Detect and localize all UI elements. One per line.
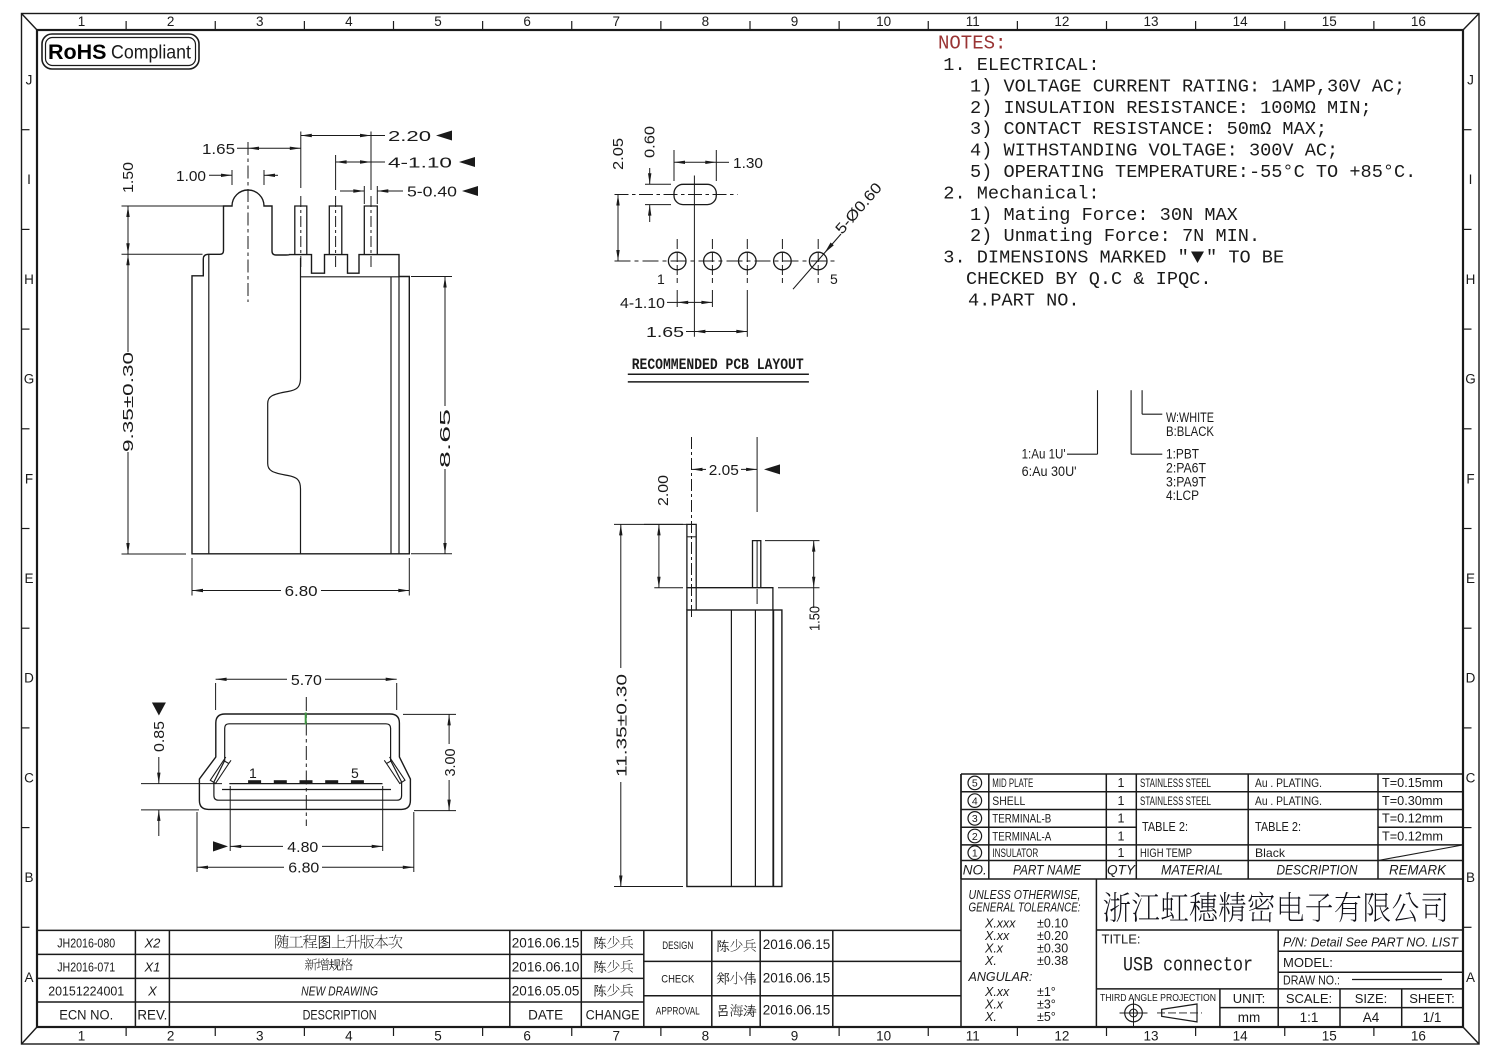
dim 1.65 (slot to hole3) xyxy=(694,331,747,333)
svg-text:J: J xyxy=(26,72,33,87)
svg-text:1:1: 1:1 xyxy=(1300,1010,1319,1025)
pcb layout: hole 5 (5-O0.60) xyxy=(809,252,827,270)
svg-text:X: X xyxy=(147,984,158,999)
side view: front pin centerline xyxy=(691,437,693,620)
svg-text:" TO BE: " TO BE xyxy=(1206,248,1284,269)
svg-text:3: 3 xyxy=(256,1029,264,1044)
svg-text:4: 4 xyxy=(345,1029,353,1044)
svg-text:GENERAL TOLERANCE:: GENERAL TOLERANCE: xyxy=(969,901,1081,915)
svg-text:NO.: NO. xyxy=(963,863,987,878)
svg-text:7: 7 xyxy=(613,1029,621,1044)
dim 1.50 (rear pin protrusion) xyxy=(765,540,820,542)
svg-text:1: 1 xyxy=(1118,846,1125,860)
pcb layout: hole 2 (5-O0.60) xyxy=(704,252,722,270)
leader 5-O0.60 xyxy=(793,234,841,289)
svg-text:mm: mm xyxy=(1238,1010,1261,1025)
svg-text:11: 11 xyxy=(966,1029,980,1044)
svg-text:2) Unmating Force: 7N MIN.: 2) Unmating Force: 7N MIN. xyxy=(970,226,1260,247)
side view: internal vertical lines xyxy=(730,610,732,887)
svg-text:I: I xyxy=(1469,172,1473,187)
mating view: green datum tick xyxy=(305,713,307,725)
svg-text:UNIT:: UNIT: xyxy=(1233,991,1266,1006)
svg-text:DRAW NO.:: DRAW NO.: xyxy=(1283,973,1340,988)
front view: tab centerline xyxy=(247,142,249,302)
svg-text:1.65: 1.65 xyxy=(202,141,235,158)
svg-text:1: 1 xyxy=(78,14,86,29)
svg-text:H: H xyxy=(24,272,34,287)
svg-text:1: 1 xyxy=(249,765,257,781)
svg-text:2:PA6T: 2:PA6T xyxy=(1166,460,1206,475)
svg-text:X1: X1 xyxy=(143,960,160,975)
BOM diagonal in remark cell xyxy=(1378,845,1463,861)
svg-text:1.50: 1.50 xyxy=(807,606,824,631)
side view: top cap xyxy=(687,588,773,610)
svg-text:A: A xyxy=(1466,970,1475,985)
svg-text:14: 14 xyxy=(1233,1029,1249,1044)
svg-text:STAINLESS STEEL: STAINLESS STEEL xyxy=(1140,776,1211,790)
svg-text:8: 8 xyxy=(702,14,710,29)
svg-text:±5°: ±5° xyxy=(1037,1010,1056,1024)
svg-text:Au . PLATING.: Au . PLATING. xyxy=(1255,794,1322,808)
revision description row 1 (Chinese) xyxy=(275,935,402,949)
svg-text:2.00: 2.00 xyxy=(655,475,672,506)
svg-text:P/N: Detail See PART NO. LIST: P/N: Detail See PART NO. LIST xyxy=(1283,935,1459,950)
front view: terminal pin 3 xyxy=(364,206,377,255)
svg-text:SHELL: SHELL xyxy=(992,794,1025,808)
mating view: 5 contacts xyxy=(248,780,261,783)
svg-text:2016.06.15: 2016.06.15 xyxy=(512,936,580,951)
svg-text:Compliant: Compliant xyxy=(111,42,192,64)
pcb layout: slot horizontal centerline xyxy=(615,194,738,196)
svg-text:5-0.40: 5-0.40 xyxy=(407,184,457,201)
svg-text:DESCRIPTION: DESCRIPTION xyxy=(1277,863,1358,878)
svg-text:5: 5 xyxy=(830,271,838,287)
svg-text:3: 3 xyxy=(256,14,264,29)
svg-text:1.50: 1.50 xyxy=(120,162,137,193)
dim 5.70 (shell top width) xyxy=(215,683,217,710)
svg-text:J: J xyxy=(1467,72,1474,87)
pcb layout: hole 1 (5-O0.60) xyxy=(668,252,686,270)
BOM row 5 MID PLATE xyxy=(968,776,982,790)
BOM row 3 TERMINAL-B xyxy=(968,812,982,826)
svg-text:8.65: 8.65 xyxy=(437,409,454,468)
svg-text:2: 2 xyxy=(167,14,175,29)
svg-text:SHEET:: SHEET: xyxy=(1409,991,1455,1006)
svg-text:2016.06.15: 2016.06.15 xyxy=(763,937,831,952)
svg-text:PART NAME: PART NAME xyxy=(1013,863,1082,878)
svg-text:1: 1 xyxy=(78,1029,86,1044)
side view: body xyxy=(687,610,782,887)
svg-text:5) OPERATING TEMPERATURE:-55°C: 5) OPERATING TEMPERATURE:-55°C TO +85°C. xyxy=(970,162,1416,183)
svg-text:5.70: 5.70 xyxy=(291,672,322,689)
mating view: shell inner outline xyxy=(214,724,402,800)
svg-text:3: 3 xyxy=(972,813,978,825)
svg-text:MATERIAL: MATERIAL xyxy=(1161,863,1223,878)
dim 6.80 (shell bottom width) xyxy=(196,812,198,872)
svg-text:X2: X2 xyxy=(143,936,161,951)
svg-text:STAINLESS STEEL: STAINLESS STEEL xyxy=(1140,794,1211,808)
svg-text:T=0.12mm: T=0.12mm xyxy=(1382,812,1443,826)
dim 0.85 (contact plane to bottom) xyxy=(152,703,166,716)
svg-text:X.: X. xyxy=(984,954,997,968)
svg-text:1: 1 xyxy=(1118,812,1125,826)
notes checked-mark triangle xyxy=(1191,252,1204,264)
svg-text:W:WHITE: W:WHITE xyxy=(1166,410,1214,425)
pcb layout: holes centerline xyxy=(615,260,839,262)
svg-text:TITLE:: TITLE: xyxy=(1102,932,1141,947)
svg-text:8: 8 xyxy=(702,1029,710,1044)
svg-text:1) Mating Force: 30N MAX: 1) Mating Force: 30N MAX xyxy=(970,205,1238,226)
svg-text:±0.38: ±0.38 xyxy=(1037,954,1068,968)
dim 1.00 (dome width) xyxy=(231,170,233,185)
svg-text:G: G xyxy=(1465,372,1476,387)
svg-text:B: B xyxy=(24,870,33,885)
dim 4-1.10 (pin pitch) xyxy=(335,155,337,190)
svg-text:C: C xyxy=(1466,770,1476,785)
side view: rear pin xyxy=(753,541,761,588)
svg-text:11: 11 xyxy=(966,14,980,29)
svg-text:20151224001: 20151224001 xyxy=(48,984,124,999)
company name (Chinese) xyxy=(1104,892,1447,923)
svg-text:TABLE 2:: TABLE 2: xyxy=(1255,820,1301,834)
svg-text:10: 10 xyxy=(876,1029,891,1044)
svg-text:4-1.10: 4-1.10 xyxy=(388,155,452,172)
dim 4-1.10 (hole pitch) xyxy=(677,301,712,303)
svg-text:3:PA9T: 3:PA9T xyxy=(1166,474,1206,489)
svg-text:2. Mechanical:: 2. Mechanical: xyxy=(943,183,1099,204)
svg-text:6.80: 6.80 xyxy=(288,860,319,877)
dim 2.20 (pin1 to pin3) xyxy=(300,132,302,189)
svg-text:2: 2 xyxy=(167,1029,175,1044)
svg-text:T=0.30mm: T=0.30mm xyxy=(1382,794,1443,808)
revision description row 2 (Chinese) xyxy=(305,958,353,970)
svg-text:14: 14 xyxy=(1233,14,1249,29)
part no. legend lines xyxy=(1097,390,1099,454)
pcb layout: hole 4 (5-O0.60) xyxy=(774,252,792,270)
svg-text:15: 15 xyxy=(1322,14,1337,29)
tolerance box xyxy=(960,879,962,1027)
svg-text:1) VOLTAGE CURRENT RATING: 1AM: 1) VOLTAGE CURRENT RATING: 1AMP,30V AC; xyxy=(970,76,1405,97)
svg-text:2.05: 2.05 xyxy=(709,462,739,479)
svg-text:1: 1 xyxy=(1118,829,1125,843)
svg-text:5: 5 xyxy=(434,14,442,29)
svg-text:DESIGN: DESIGN xyxy=(662,940,693,952)
front view: terminal pin 2 xyxy=(329,206,342,255)
svg-text:2016.06.10: 2016.06.10 xyxy=(512,960,580,975)
svg-text:1: 1 xyxy=(1118,794,1125,808)
svg-text:9: 9 xyxy=(791,1029,799,1044)
svg-text:B:BLACK: B:BLACK xyxy=(1166,424,1214,439)
svg-text:JH2016-071: JH2016-071 xyxy=(57,960,115,975)
dim 8.65 (body height) xyxy=(411,276,452,278)
svg-text:2) INSULATION RESISTANCE: 100M: 2) INSULATION RESISTANCE: 100MΩ MIN; xyxy=(970,98,1372,119)
svg-text:13: 13 xyxy=(1144,14,1159,29)
svg-text:REMARK: REMARK xyxy=(1389,863,1447,878)
svg-text:3. DIMENSIONS MARKED ": 3. DIMENSIONS MARKED " xyxy=(943,248,1188,269)
mating view: left corner fold slot xyxy=(210,757,231,784)
svg-text:TABLE 2:: TABLE 2: xyxy=(1142,820,1188,834)
approval names (Chinese) xyxy=(717,939,756,952)
svg-text:1.30: 1.30 xyxy=(733,155,763,172)
svg-text:13: 13 xyxy=(1144,1029,1159,1044)
front view: terminal pin 1 xyxy=(295,206,307,255)
svg-text:TERMINAL-A: TERMINAL-A xyxy=(992,829,1051,843)
dim 4.80 (cavity width) xyxy=(229,786,231,851)
svg-text:3.00: 3.00 xyxy=(442,749,459,777)
svg-text:H: H xyxy=(1466,272,1476,287)
svg-text:MODEL:: MODEL: xyxy=(1283,955,1333,970)
svg-text:NEW DRAWING: NEW DRAWING xyxy=(301,984,378,999)
svg-text:RoHS: RoHS xyxy=(48,40,107,64)
dim 6.80 (front body width) xyxy=(191,558,193,596)
front view: body top edge under pedestals xyxy=(301,276,400,278)
svg-text:2016.06.15: 2016.06.15 xyxy=(763,971,831,986)
svg-text:F: F xyxy=(25,471,33,486)
svg-text:16: 16 xyxy=(1411,1029,1426,1044)
svg-text:CHANGE: CHANGE xyxy=(586,1008,640,1023)
svg-text:9: 9 xyxy=(791,14,799,29)
svg-text:A4: A4 xyxy=(1363,1010,1380,1025)
svg-text:4.PART NO.: 4.PART NO. xyxy=(968,290,1080,311)
svg-text:TERMINAL-B: TERMINAL-B xyxy=(992,812,1051,826)
svg-text:4: 4 xyxy=(345,14,353,29)
dim 5-0.40 (pin width) xyxy=(363,186,365,204)
svg-text:D: D xyxy=(1466,671,1476,686)
BOM row 4 SHELL xyxy=(968,794,982,808)
svg-text:1.65: 1.65 xyxy=(646,324,684,341)
dim 1.65 (tab center to pin1) xyxy=(237,147,301,149)
revision table grid xyxy=(37,929,961,931)
svg-text:B: B xyxy=(1466,870,1475,885)
svg-text:2016.06.15: 2016.06.15 xyxy=(763,1003,831,1018)
dim 2.00 (pin protrusion) xyxy=(644,523,683,525)
svg-text:0.85: 0.85 xyxy=(151,721,168,752)
svg-text:10: 10 xyxy=(876,14,891,29)
front view: connector body outline xyxy=(192,190,409,554)
svg-text:1: 1 xyxy=(972,848,978,860)
front view: center seam with key jog xyxy=(268,258,301,554)
mating view: shell outer outline xyxy=(199,714,410,809)
svg-text:DATE: DATE xyxy=(528,1008,563,1023)
dim 2.05 (pin row spacing) xyxy=(692,468,707,470)
svg-text:3) CONTACT RESISTANCE: 50mΩ MA: 3) CONTACT RESISTANCE: 50mΩ MAX; xyxy=(970,119,1327,140)
svg-text:16: 16 xyxy=(1411,14,1426,29)
svg-text:2: 2 xyxy=(972,831,978,843)
svg-text:6:Au 30U': 6:Au 30U' xyxy=(1022,464,1077,479)
dim 2.05 (slot to holes) xyxy=(617,195,619,262)
svg-text:I: I xyxy=(27,172,31,187)
svg-text:THIRD ANGLE PROJECTION: THIRD ANGLE PROJECTION xyxy=(1100,992,1216,1004)
svg-text:5: 5 xyxy=(972,778,978,790)
svg-text:RECOMMENDED PCB LAYOUT: RECOMMENDED PCB LAYOUT xyxy=(632,356,804,374)
pcb layout: hole 3 (5-O0.60) xyxy=(739,252,757,270)
svg-text:X.: X. xyxy=(984,1010,997,1024)
svg-text:1: 1 xyxy=(1118,776,1125,790)
front view: pin centerlines xyxy=(300,196,302,268)
dim 1.30 (slot length) xyxy=(673,150,675,181)
svg-text:T=0.15mm: T=0.15mm xyxy=(1382,776,1443,790)
RoHS Compliant badge xyxy=(42,34,199,69)
change names column (Chinese) xyxy=(594,936,633,949)
svg-text:F: F xyxy=(1466,471,1474,486)
svg-text:APPROVAL: APPROVAL xyxy=(656,1006,700,1018)
svg-text:4:LCP: 4:LCP xyxy=(1166,488,1199,503)
svg-text:ANGULAR:: ANGULAR: xyxy=(968,970,1033,984)
mating view: vertical centerline xyxy=(305,697,307,826)
projection symbol circle xyxy=(1125,1004,1143,1022)
BOM parts table grid xyxy=(961,773,1463,775)
svg-text:0.60: 0.60 xyxy=(642,126,659,158)
svg-text:1: 1 xyxy=(657,271,665,287)
svg-text:1:Au 1U': 1:Au 1U' xyxy=(1022,446,1066,461)
BOM row 2 TERMINAL-A xyxy=(968,829,982,843)
svg-text:CHECKED BY Q.C & IPQC.: CHECKED BY Q.C & IPQC. xyxy=(966,269,1211,290)
svg-text:HIGH TEMP: HIGH TEMP xyxy=(1140,846,1192,860)
dim 0.60 (slot width) xyxy=(645,183,671,185)
mating view: right corner fold slot xyxy=(384,757,405,784)
svg-text:1/1: 1/1 xyxy=(1423,1010,1442,1025)
dim 11.35±0.30 (overall height) xyxy=(614,523,687,525)
svg-text:DESCRIPTION: DESCRIPTION xyxy=(303,1008,377,1023)
svg-text:USB connector: USB connector xyxy=(1123,955,1253,978)
svg-text:6: 6 xyxy=(523,14,531,29)
dim 3.00 (shell height) xyxy=(403,713,456,715)
svg-text:6: 6 xyxy=(523,1029,531,1044)
svg-text:2.20: 2.20 xyxy=(388,128,431,145)
svg-text:11.35±0.30: 11.35±0.30 xyxy=(614,674,631,777)
projection symbol frustum xyxy=(1162,1004,1197,1022)
svg-text:Black: Black xyxy=(1255,846,1286,860)
svg-text:4-1.10: 4-1.10 xyxy=(620,295,665,312)
pcb layout: slot vertical extension line xyxy=(693,176,695,337)
svg-text:NOTES:: NOTES: xyxy=(938,33,1006,55)
svg-text:REV.: REV. xyxy=(137,1008,167,1023)
front view: shell inner wall lines xyxy=(208,254,210,554)
svg-text:1:PBT: 1:PBT xyxy=(1166,446,1199,461)
svg-text:T=0.12mm: T=0.12mm xyxy=(1382,829,1443,843)
svg-text:4.80: 4.80 xyxy=(287,839,318,856)
svg-text:SCALE:: SCALE: xyxy=(1286,991,1332,1006)
BOM row 1 INSULATOR xyxy=(968,846,982,860)
svg-text:Au . PLATING.: Au . PLATING. xyxy=(1255,776,1322,790)
svg-text:JH2016-080: JH2016-080 xyxy=(57,936,115,951)
svg-text:2.05: 2.05 xyxy=(610,138,627,170)
svg-text:C: C xyxy=(24,770,34,785)
svg-text:5: 5 xyxy=(434,1029,442,1044)
svg-text:12: 12 xyxy=(1054,1029,1069,1044)
svg-text:ECN NO.: ECN NO. xyxy=(59,1008,113,1023)
side view: front pin xyxy=(687,524,696,587)
svg-text:1. ELECTRICAL:: 1. ELECTRICAL: xyxy=(943,55,1099,76)
svg-text:1.00: 1.00 xyxy=(176,168,206,185)
svg-text:CHECK: CHECK xyxy=(661,974,695,986)
svg-text:4) WITHSTANDING VOLTAGE: 300V: 4) WITHSTANDING VOLTAGE: 300V AC; xyxy=(970,141,1338,162)
side view: rear pin extension line xyxy=(756,437,758,512)
svg-text:MID PLATE: MID PLATE xyxy=(992,776,1033,790)
svg-text:D: D xyxy=(24,671,34,686)
svg-text:15: 15 xyxy=(1322,1029,1337,1044)
svg-text:QTY: QTY xyxy=(1107,863,1136,878)
mating view: shell fold line xyxy=(222,789,391,791)
svg-text:5: 5 xyxy=(351,765,359,781)
dim 9.35±0.30 (overall height) xyxy=(122,553,187,555)
mating view: contact plane line xyxy=(229,783,382,785)
svg-text:A: A xyxy=(24,970,33,985)
title block grid xyxy=(1096,929,1462,931)
svg-text:E: E xyxy=(24,571,33,586)
pcb layout: polarization slot xyxy=(674,184,716,204)
svg-text:E: E xyxy=(1466,571,1475,586)
svg-text:4: 4 xyxy=(972,795,978,807)
svg-text:G: G xyxy=(24,372,35,387)
svg-text:INSULATOR: INSULATOR xyxy=(992,846,1038,860)
svg-text:12: 12 xyxy=(1054,14,1069,29)
svg-text:2016.05.05: 2016.05.05 xyxy=(512,984,580,999)
svg-text:SIZE:: SIZE: xyxy=(1355,991,1388,1006)
svg-text:7: 7 xyxy=(613,14,621,29)
dim 1.50 (tab height) xyxy=(122,205,225,207)
svg-text:6.80: 6.80 xyxy=(285,583,318,600)
svg-text:9.35±0.30: 9.35±0.30 xyxy=(120,352,137,452)
